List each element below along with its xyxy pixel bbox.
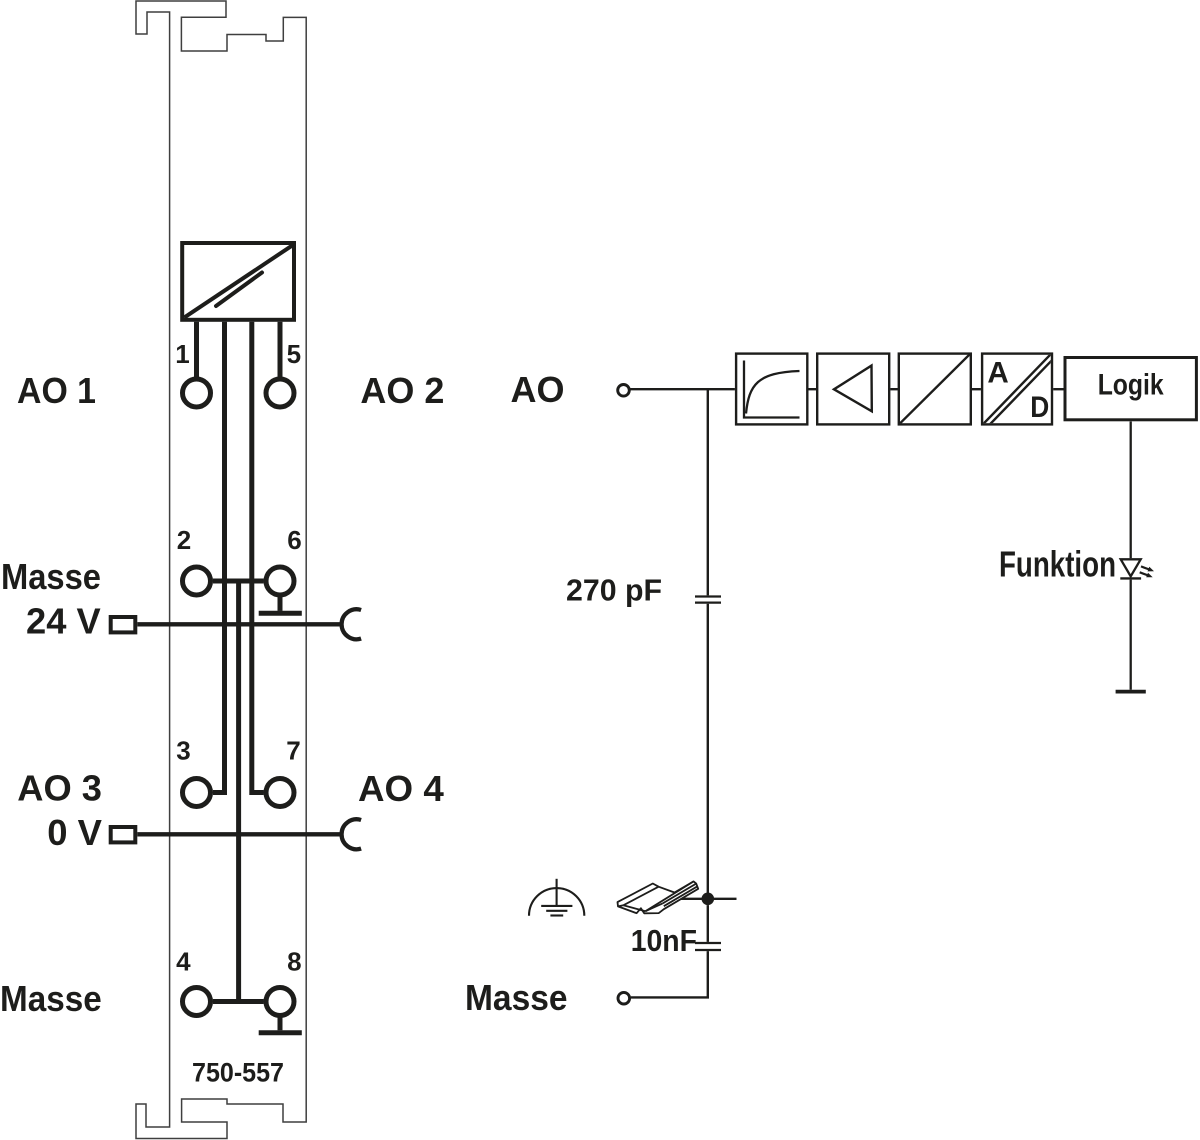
svg-text:3: 3 [176,736,190,766]
svg-text:8: 8 [287,947,301,977]
svg-text:0 V: 0 V [47,812,102,853]
24V power jumper socket arc [342,609,362,639]
svg-text:Logik: Logik [1098,369,1164,402]
svg-text:5: 5 [287,339,301,369]
svg-text:10nF: 10nF [631,923,697,958]
wire 10nF to Masse [631,951,708,997]
wire B2-B3 [890,388,898,390]
svg-text:Masse: Masse [0,978,102,1019]
wire 270pF to junction [707,604,709,899]
LED light arrow 2 [1140,572,1153,577]
wire 0V bus [137,832,341,836]
svg-text:AO 2: AO 2 [360,370,444,411]
wire Logik to LED [1130,422,1132,559]
24V power jumper contact plug [111,617,136,632]
wire pin 7 channel AO4 [252,322,264,793]
Masse terminal circle [618,992,630,1004]
svg-text:D: D [1030,391,1049,424]
svg-text:750-557: 750-557 [192,1058,284,1088]
wire connector 4-8 [213,999,264,1004]
0V power jumper socket arc [342,819,362,849]
contact circle 8 [266,988,294,1016]
svg-text:Funktion: Funktion [999,544,1116,585]
contact circle 6 [266,567,294,595]
Logik box [1065,358,1196,420]
wire B4-Logik [1053,388,1063,390]
filter box B1 curve [744,361,800,418]
svg-text:7: 7 [286,736,300,766]
node junction dot [702,893,715,906]
contact circle 7 [266,779,294,807]
rail contact bar below pin 6 [259,597,302,613]
capacitor 10nF [695,943,721,950]
AO terminal circle [618,385,630,397]
A/D converter box B4 [982,354,1052,425]
wire B1-B2 [809,388,817,390]
svg-text:AO 1: AO 1 [17,370,96,411]
wire pin 5 [278,322,283,377]
amplifier box B2 [817,354,889,425]
contact circle 4 [183,988,211,1016]
earth ground symbol [529,879,584,916]
svg-text:A: A [987,357,1008,390]
contact circle 1 [183,379,211,407]
LED light arrow 1 [1141,566,1154,571]
A/D double diagonal [982,353,1055,429]
converter box B3 diagonal [900,354,970,424]
0V power jumper contact plug [111,827,136,842]
wire LED to ground [1130,580,1132,690]
amplifier triangle [834,366,872,412]
converter box B3 [899,354,971,425]
contact circle 3 [183,779,211,807]
filter box B1 [736,354,807,425]
svg-text:AO: AO [511,369,565,410]
wire middle bus to 4-8 [236,581,241,1002]
capacitor 270pF [695,597,721,603]
svg-text:24 V: 24 V [26,601,101,642]
svg-text:AO 3: AO 3 [17,768,102,809]
contact circle 5 [266,379,294,407]
svg-text:4: 4 [176,947,191,977]
wire connector 2-6 [213,579,264,584]
contact circle 2 [183,567,211,595]
wire AO to filter box [630,388,735,390]
svg-text:Masse: Masse [1,556,101,597]
wire junction right stub [708,898,737,900]
wire pin 1 [194,322,199,377]
svg-text:Masse: Masse [465,977,568,1018]
svg-text:1: 1 [175,339,189,369]
module outline [136,1,306,1139]
svg-text:6: 6 [287,525,301,555]
wire B3-B4 [972,388,981,390]
svg-text:2: 2 [177,525,191,555]
wire 24V bus [137,622,341,626]
ground bar [1116,690,1146,694]
svg-text:270 pF: 270 pF [566,573,662,608]
rail contact bar below pin 8 [259,1018,302,1033]
wire junction to 10nF [707,905,709,942]
LED D1 triangle [1121,559,1141,576]
LED cathode bar [1120,577,1141,579]
wire rail to junction [668,898,708,900]
DAC converter box U1 [182,243,294,320]
svg-text:AO 4: AO 4 [358,768,444,809]
DIN rail symbol [618,881,699,913]
wire AO branch down to 270pF [707,389,709,595]
wire pin 3 channel AO3 [213,322,225,793]
